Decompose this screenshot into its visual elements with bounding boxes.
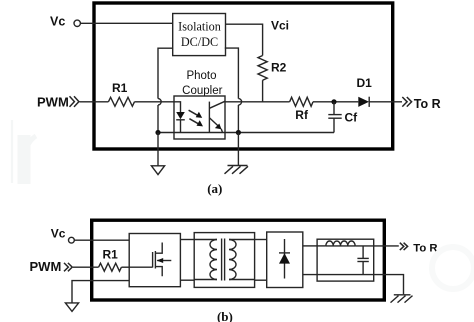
svg-text:Isolation: Isolation xyxy=(178,20,221,34)
transformer core xyxy=(221,239,223,281)
bottom rail (b) right xyxy=(303,275,404,295)
inductor L1 xyxy=(317,245,326,247)
diode D2 (rectifier) xyxy=(284,239,286,279)
resistor R2 xyxy=(258,56,267,81)
input chevron PWM (a) xyxy=(70,96,79,107)
bottom rail (a) xyxy=(158,132,334,134)
capacitor C1 xyxy=(362,246,364,259)
enclosure box (b) xyxy=(92,220,385,300)
wire R1 to photocoupler xyxy=(134,101,174,103)
output chevron To R (a) xyxy=(402,97,411,107)
converter U1 Isolation DC/DC box xyxy=(173,14,226,56)
faint watermark xyxy=(12,120,474,289)
wire PWM to R1 xyxy=(80,101,109,103)
wire PWM to R1 (b) xyxy=(73,266,99,268)
MOSFET box xyxy=(129,234,180,287)
wire MOSFET to transformer bottom xyxy=(180,279,194,281)
resistor Rf xyxy=(290,97,313,106)
svg-text:R2: R2 xyxy=(271,61,287,75)
wire DC/DC right to Vci node xyxy=(226,24,263,55)
photocoupler U2 box xyxy=(174,96,225,139)
svg-text:PWM: PWM xyxy=(30,259,62,274)
wire collector to Rf xyxy=(225,101,290,103)
transformer T1 primary xyxy=(194,239,217,241)
junction dot right xyxy=(236,130,241,135)
svg-text:Photo: Photo xyxy=(186,70,216,82)
svg-text:R1: R1 xyxy=(103,248,119,262)
svg-text:Vc: Vc xyxy=(50,15,65,29)
enclosure box (a) xyxy=(94,3,393,149)
wire Vc to DC/DC xyxy=(80,22,172,24)
wire DC/DC right supply down (with hop) xyxy=(225,48,239,99)
svg-text:To R: To R xyxy=(413,242,437,254)
svg-text:D1: D1 xyxy=(357,76,373,90)
ground right hatched (b) xyxy=(394,294,411,296)
input chevron PWM (b) xyxy=(64,263,72,271)
terminal Vc (a) xyxy=(74,20,80,26)
wire R1 to MOSFET box xyxy=(121,266,129,268)
light arrows xyxy=(189,110,199,124)
svg-text:DC/DC: DC/DC xyxy=(181,35,218,49)
terminal Vc (b) xyxy=(69,237,75,243)
wire DC/DC left supply down (with hop) xyxy=(158,48,173,98)
svg-text:Cf: Cf xyxy=(345,111,359,125)
wire transformer to diode box xyxy=(255,239,267,241)
svg-text:To R: To R xyxy=(414,97,441,111)
rectifier box xyxy=(267,232,303,288)
wire L1 to output xyxy=(355,245,399,247)
ground branch (b) left xyxy=(72,281,129,303)
transformer T1 secondary xyxy=(229,240,236,280)
wire D1 to output xyxy=(369,101,402,103)
wire diode to LC filter top xyxy=(303,245,317,247)
svg-text:R1: R1 xyxy=(112,81,128,95)
svg-text:(a): (a) xyxy=(207,181,222,196)
phototransistor inside photocoupler xyxy=(208,102,210,132)
svg-text:Coupler: Coupler xyxy=(182,85,222,97)
output chevron To R (b) xyxy=(400,243,408,250)
LC filter box xyxy=(317,239,374,281)
wire Rf to node xyxy=(313,101,358,103)
svg-text:Rf: Rf xyxy=(295,108,309,122)
svg-text:Vci: Vci xyxy=(271,19,289,33)
ground right hatched (a) xyxy=(237,133,239,166)
resistor R1 (b) xyxy=(99,263,122,271)
capacitor Cf xyxy=(333,102,335,115)
svg-text:(b): (b) xyxy=(217,309,233,322)
junction dot left xyxy=(155,130,160,135)
resistor R1 (a) xyxy=(108,97,134,106)
transformer box xyxy=(194,233,254,288)
svg-text:Vc: Vc xyxy=(51,227,66,241)
wire Vc (b) xyxy=(74,239,129,241)
MOSFET Q1 symbol xyxy=(129,266,152,268)
LED inside photocoupler xyxy=(174,102,181,112)
junction dot Cf xyxy=(331,99,336,104)
svg-text:PWM: PWM xyxy=(37,94,69,109)
ground left (a) xyxy=(157,133,159,166)
wire R2 bottom to output node xyxy=(262,80,264,102)
wire MOSFET to transformer top xyxy=(180,239,194,241)
